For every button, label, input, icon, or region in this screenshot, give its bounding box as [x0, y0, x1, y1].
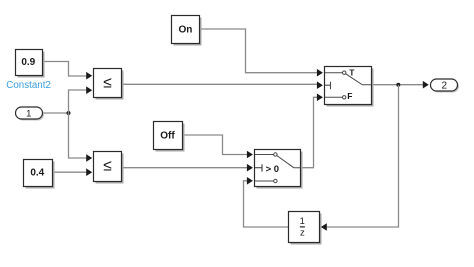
- svg-text:2: 2: [442, 81, 448, 92]
- svg-text:0.4: 0.4: [30, 168, 44, 179]
- svg-text:≤: ≤: [103, 158, 112, 175]
- svg-text:0.9: 0.9: [21, 57, 35, 68]
- wire: node A down to U2 input 1: [69, 113, 93, 162]
- wire: Constant2 0.9 output to relational operator U1 input 1: [43, 62, 93, 80]
- wire: unit delay output to SW2 input 3: [244, 177, 289, 227]
- switch SW1 (T/F switch): [325, 67, 374, 107]
- outport block 2: [431, 79, 460, 93]
- svg-text:≤: ≤: [103, 75, 112, 92]
- svg-text:F: F: [347, 91, 352, 101]
- constant block Constant2 value 0.9: [16, 50, 45, 78]
- node B junction dot on SW1 output net: [396, 83, 400, 87]
- label Constant2: [6, 80, 51, 91]
- svg-text:1: 1: [300, 216, 305, 226]
- relational operator U2 (less-than-or-equal): [94, 152, 124, 184]
- svg-text:z: z: [300, 228, 305, 239]
- wire: constant Off output to SW2 input 1: [183, 135, 253, 158]
- svg-text:On: On: [178, 24, 192, 35]
- wire: SW2 output up to SW1 F input: [301, 94, 323, 168]
- node A junction dot: [67, 111, 71, 115]
- constant block On: [172, 16, 202, 46]
- wire: U2 output to SW2 control input: [122, 164, 253, 172]
- wire: SW1 output to outport 2: [372, 81, 429, 89]
- svg-text:> 0: > 0: [266, 164, 279, 175]
- wire: node B down and left to unit delay input: [321, 85, 399, 231]
- constant block 0.4: [24, 160, 55, 189]
- svg-text:Off: Off: [160, 130, 175, 141]
- wire: node A up to U1 input 2: [69, 86, 93, 113]
- wire: U1 output to switch SW1 control input: [122, 81, 323, 89]
- svg-text:1: 1: [26, 108, 31, 119]
- wire: inport 1 trunk to node A: [43, 112, 69, 114]
- unit delay block 1/z: [289, 212, 322, 245]
- wire: constant On output to SW1 T input: [200, 29, 323, 77]
- relational operator U1 (less-than-or-equal): [94, 69, 124, 100]
- wire: constant 0.4 output to U2 input 2: [53, 168, 93, 176]
- svg-text:Constant2: Constant2: [6, 80, 51, 91]
- inport block 1: [16, 107, 45, 121]
- constant block Off: [154, 122, 185, 152]
- svg-text:T: T: [349, 67, 355, 77]
- switch SW2 (criteria u2 > 0): [255, 150, 303, 189]
